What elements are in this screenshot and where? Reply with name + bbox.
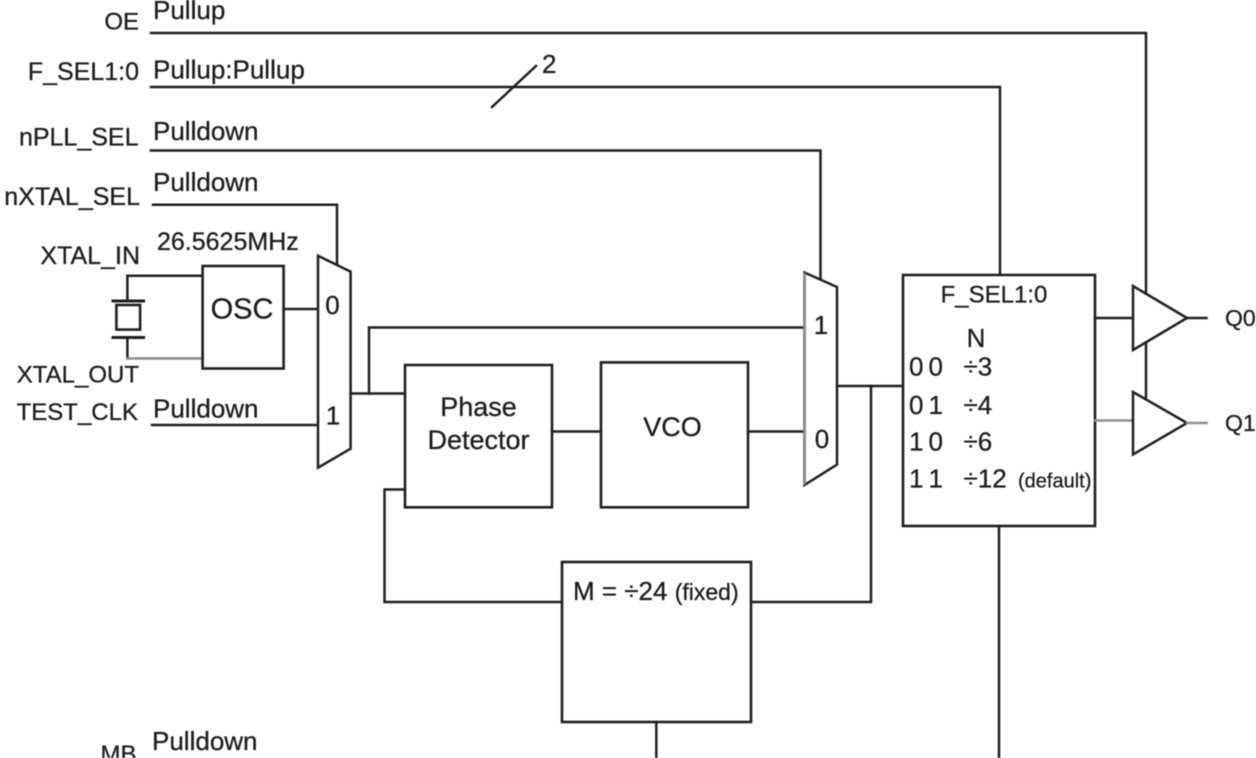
svg-text:Pulldown: Pulldown: [153, 167, 259, 197]
crystal Y1 top plate: [113, 300, 144, 303]
svg-text:TEST_CLK: TEST_CLK: [17, 399, 138, 426]
wire node junction up to mux2 input 1: [369, 328, 805, 394]
svg-text:Phase: Phase: [440, 392, 517, 422]
wire nPLL_SEL rail: [151, 151, 821, 282]
svg-text:1: 1: [909, 464, 923, 494]
svg-text:Pulldown: Pulldown: [152, 726, 258, 756]
wire divider N to Q1 buffer (gray): [1095, 419, 1133, 422]
wire divider N bottom stub: [998, 526, 1001, 758]
svg-text:0: 0: [909, 352, 923, 382]
divider N box F_SEL1:0: [903, 275, 1095, 526]
svg-text:N: N: [967, 323, 986, 353]
bus-width slash: [492, 66, 536, 107]
svg-text:Pullup:Pullup: Pullup:Pullup: [153, 55, 305, 85]
crystal Y1 bottom plate: [113, 336, 144, 339]
svg-text:Detector: Detector: [427, 425, 529, 455]
wire TEST_CLK rail to mux1 input 1: [152, 424, 318, 427]
mux2 left edge gray overstroke: [803, 274, 806, 484]
wire Q1 output (gray): [1187, 422, 1207, 425]
svg-text:F_SEL1:0: F_SEL1:0: [28, 58, 139, 86]
svg-text:OSC: OSC: [211, 294, 274, 326]
wire divider N to Q0 buffer: [1095, 317, 1133, 320]
wire VCO output to mux2 input 0: [748, 430, 805, 433]
svg-text:Q0: Q0: [1225, 305, 1256, 331]
wire crystal to XTAL_OUT: [126, 339, 129, 359]
divider M box: [562, 562, 751, 722]
wire OSC output to mux1 input 0: [284, 308, 318, 311]
svg-text:1: 1: [909, 427, 923, 457]
svg-text:0: 0: [929, 427, 943, 457]
wire Q0 output: [1187, 317, 1207, 320]
crystal Y1 body: [116, 305, 140, 330]
svg-text:nXTAL_SEL: nXTAL_SEL: [4, 183, 140, 211]
wire mux1 output to Phase Detector: [351, 392, 405, 395]
output buffer Q0: [1133, 286, 1187, 350]
svg-text:1: 1: [929, 464, 943, 494]
wire F_SEL1:0 rail: [151, 87, 1000, 276]
svg-text:M = ÷24 (fixed): M = ÷24 (fixed): [573, 576, 739, 606]
svg-text:OE: OE: [104, 9, 139, 36]
svg-text:nPLL_SEL: nPLL_SEL: [19, 124, 139, 152]
svg-text:26.5625MHz: 26.5625MHz: [157, 228, 299, 256]
mux2 PLL bypass select: [805, 273, 838, 486]
wire Phase Detector to VCO: [552, 430, 601, 433]
svg-text:XTAL_IN: XTAL_IN: [40, 242, 140, 270]
svg-text:VCO: VCO: [643, 412, 702, 442]
wire nXTAL_SEL rail: [153, 205, 337, 266]
wire XTAL_IN to OSC: [127, 276, 202, 300]
svg-text:MB: MB: [101, 741, 137, 758]
svg-text:0: 0: [929, 352, 943, 382]
svg-text:Q1: Q1: [1225, 410, 1256, 436]
oscillator OSC box: [203, 266, 284, 369]
svg-text:Pulldown: Pulldown: [153, 394, 259, 424]
wire OE rail: [151, 33, 1146, 397]
svg-text:1: 1: [929, 390, 943, 420]
wire divider M bottom stub: [655, 722, 658, 758]
VCO box: [601, 362, 748, 507]
svg-text:2: 2: [542, 49, 556, 79]
svg-text:XTAL_OUT: XTAL_OUT: [17, 362, 140, 389]
svg-text:0: 0: [909, 390, 923, 420]
svg-text:1: 1: [326, 401, 340, 431]
phase detector box: [405, 365, 552, 507]
wire feedback node down to divider M: [751, 386, 871, 602]
svg-text:0: 0: [815, 424, 829, 454]
svg-text:(default): (default): [1018, 471, 1091, 493]
svg-text:÷6: ÷6: [964, 427, 993, 457]
svg-text:÷4: ÷4: [964, 390, 993, 420]
svg-text:÷3: ÷3: [964, 352, 993, 382]
wire mux2 output to divider N: [837, 385, 903, 388]
wire XTAL_OUT to OSC (gray): [127, 357, 203, 360]
svg-text:1: 1: [814, 310, 828, 340]
svg-text:F_SEL1:0: F_SEL1:0: [941, 282, 1048, 309]
wire divider M output to Phase Detector feedback: [385, 490, 563, 603]
svg-text:0: 0: [325, 290, 339, 320]
mux1 reference clock select: [318, 256, 351, 468]
svg-text:Pullup: Pullup: [153, 0, 225, 25]
svg-text:Pulldown: Pulldown: [153, 116, 259, 146]
output buffer Q1: [1133, 392, 1187, 455]
svg-text:÷12: ÷12: [964, 464, 1007, 494]
